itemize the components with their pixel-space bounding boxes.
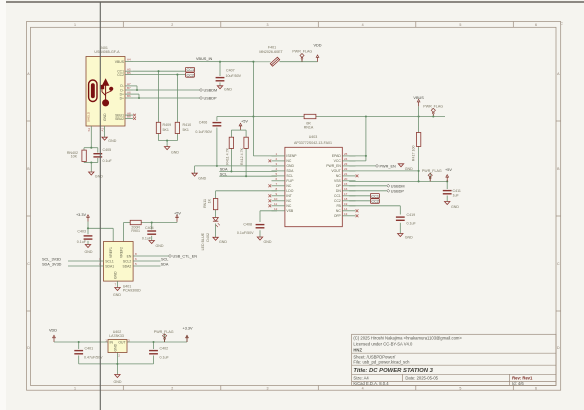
svg-text:A1: A1 [100,127,104,131]
svg-text:1uF: 1uF [453,194,460,198]
svg-text:D: D [557,346,560,350]
svg-text:B8: B8 [127,115,131,119]
svg-text:D402: D402 [206,233,210,242]
svg-text:C: C [27,262,30,266]
svg-text:USBDP: USBDP [204,97,218,101]
svg-text:GND: GND [224,88,232,92]
svg-text:DN: DN [336,189,341,193]
svg-text:B5: B5 [127,71,131,75]
svg-text:19: 19 [344,202,348,206]
svg-text:GND: GND [405,236,413,240]
svg-text:VBUS_IN: VBUS_IN [196,57,213,61]
svg-text:NC: NC [336,174,341,178]
svg-text:15: 15 [344,182,348,186]
svg-text:CC2: CC2 [187,73,195,77]
svg-text:GND: GND [264,240,272,244]
svg-text:1: 1 [74,386,76,390]
svg-text:CC1: CC1 [334,194,341,198]
svg-text:LED BLUE: LED BLUE [201,232,205,250]
svg-text:C401: C401 [85,347,94,351]
svg-text:U403: U403 [309,135,318,139]
svg-text:CC1: CC1 [371,194,379,198]
svg-text:C406: C406 [199,120,208,124]
svg-text:C408: C408 [243,222,252,226]
svg-text:2: 2 [171,23,173,27]
svg-text:GND: GND [114,271,118,279]
svg-text:14: 14 [344,207,348,211]
svg-text:SDA: SDA [220,168,228,172]
svg-text:+5V: +5V [241,120,248,124]
svg-text:+5V: +5V [445,168,452,172]
svg-text:12: 12 [274,207,278,211]
svg-text:VBUS: VBUS [413,96,424,100]
svg-text:LDO: LDO [286,189,293,193]
svg-text:10: 10 [274,197,278,201]
svg-text:File: usb_pd_power.kicad_sch: File: usb_pd_power.kicad_sch [353,360,410,365]
svg-text:OUT: OUT [118,341,125,345]
svg-text:0.1uF: 0.1uF [160,356,170,360]
svg-text:CC1: CC1 [187,68,195,72]
svg-text:C407: C407 [226,69,235,73]
svg-text:S1: S1 [87,127,91,131]
svg-text:Size: A4: Size: A4 [353,376,369,381]
svg-text:24: 24 [344,157,348,161]
svg-text:USB4085-GF-A: USB4085-GF-A [94,50,120,54]
svg-text:3: 3 [267,23,269,27]
svg-text:A4: A4 [127,58,131,62]
svg-text:17: 17 [344,192,348,196]
svg-text:GND: GND [114,343,118,351]
svg-text:0.1uF: 0.1uF [142,237,152,241]
svg-text:C405: C405 [103,148,112,152]
svg-text:D+: D+ [120,96,124,100]
svg-text:SCL2: SCL2 [123,259,132,263]
svg-text:5: 5 [459,386,461,390]
svg-text:+3.3V: +3.3V [183,327,193,331]
svg-text:ISENP: ISENP [286,154,297,158]
svg-text:SHELD: SHELD [87,111,91,122]
svg-text:SCL: SCL [161,257,168,261]
svg-text:EN: EN [127,254,132,258]
svg-text:VREF1: VREF1 [109,247,113,258]
svg-text:SDA1: SDA1 [105,264,114,268]
svg-text:FB: FB [336,204,341,208]
svg-text:PWR_FLAG: PWR_FLAG [292,50,312,54]
svg-text:CC2: CC2 [117,73,124,77]
svg-text:GND: GND [286,164,294,168]
svg-text:R409: R409 [163,123,172,127]
svg-text:GND: GND [108,139,116,143]
svg-text:VSS: VSS [334,179,342,183]
svg-text:0.1uF: 0.1uF [77,240,87,244]
svg-text:Licensed under CC-BY-SA V4.0: Licensed under CC-BY-SA V4.0 [353,341,413,346]
svg-text:GND: GND [113,293,121,297]
svg-text:AP33772S042-13-FA01: AP33772S042-13-FA01 [294,141,332,145]
svg-text:EPAD: EPAD [332,154,342,158]
svg-text:SDA_3V3D: SDA_3V3D [42,262,62,266]
svg-text:NC: NC [286,204,291,208]
svg-text:22: 22 [344,167,348,171]
svg-text:3: 3 [267,386,269,390]
svg-text:NC: NC [336,209,341,213]
svg-text:USBDM: USBDM [391,184,405,188]
svg-text:RN11: RN11 [203,199,207,208]
svg-text:R901: R901 [131,229,140,233]
svg-text:VSB: VSB [286,209,294,213]
svg-text:D: D [27,346,30,350]
svg-text:VREF2: VREF2 [119,247,123,258]
svg-text:GND: GND [219,240,227,244]
svg-text:VCC: VCC [334,159,342,163]
svg-text:C404: C404 [145,226,154,230]
svg-text:SCL: SCL [286,174,293,178]
svg-text:2: 2 [171,386,173,390]
svg-text:6: 6 [535,23,537,27]
svg-text:NC: NC [286,199,291,203]
svg-text:0.1uF: 0.1uF [407,221,417,225]
svg-text:NC: NC [286,159,291,163]
svg-text:+3.3V: +3.3V [76,213,86,217]
svg-text:10K: 10K [71,155,78,159]
svg-text:CC2: CC2 [334,199,341,203]
svg-text:C411: C411 [453,189,461,193]
svg-text:GND: GND [103,113,107,121]
svg-text:PWR_FLAG: PWR_FLAG [154,330,174,334]
svg-text:1K: 1K [208,198,212,203]
svg-text:5K1: 5K1 [183,128,189,132]
svg-text:DP: DP [336,184,341,188]
svg-text:GND: GND [95,175,103,179]
svg-text:SDA2: SDA2 [122,264,131,268]
svg-text:Id: 4/6: Id: 4/6 [512,381,524,386]
svg-text:Title: DC POWER STATION 3: Title: DC POWER STATION 3 [353,368,433,374]
svg-text:SDA: SDA [161,262,169,266]
svg-text:USB_CTL_EN: USB_CTL_EN [173,254,198,258]
svg-text:GND: GND [114,380,122,384]
svg-text:VBUS: VBUS [115,60,125,64]
svg-text:C419: C419 [407,213,416,217]
svg-text:20: 20 [344,177,348,181]
svg-text:HNZ: HNZ [353,348,362,353]
svg-text:LA78K33: LA78K33 [109,334,124,338]
svg-text:INT: INT [286,194,291,198]
svg-text:VDD: VDD [49,328,57,332]
svg-text:SCL_3V3D: SCL_3V3D [42,257,61,261]
svg-text:C402: C402 [160,347,169,351]
svg-text:0.1uF/50V: 0.1uF/50V [195,130,212,134]
svg-text:0.1uF: 0.1uF [103,159,113,163]
svg-text:C403: C403 [77,229,86,233]
svg-text:PCA9306D: PCA9306D [123,288,141,292]
svg-text:F401: F401 [268,46,276,50]
svg-text:PWR_FLAG: PWR_FLAG [422,169,442,173]
svg-text:6: 6 [535,386,537,390]
svg-text:16: 16 [344,187,348,191]
svg-text:VOUT: VOUT [331,169,340,173]
svg-text:21: 21 [344,172,348,176]
svg-text:VDD: VDD [313,43,321,47]
svg-text:13: 13 [344,212,348,216]
svg-text:GND: GND [171,151,179,155]
svg-text:10uF/50V: 10uF/50V [226,74,242,78]
svg-text:USBDP: USBDP [391,189,405,193]
svg-text:4: 4 [362,23,364,27]
svg-text:R410: R410 [183,123,192,127]
svg-text:GND: GND [198,176,206,180]
svg-text:USBDM: USBDM [204,89,218,93]
svg-text:5K1: 5K1 [163,128,169,132]
svg-text:23: 23 [344,162,348,166]
svg-text:18: 18 [344,197,348,201]
svg-text:11: 11 [274,202,277,206]
svg-text:CC2: CC2 [371,200,379,204]
svg-text:GND: GND [451,205,459,209]
svg-text:NC: NC [286,184,291,188]
svg-text:OFP: OFP [334,214,342,218]
svg-text:GND: GND [85,250,93,254]
svg-text:PWR_FLAG: PWR_FLAG [423,105,443,109]
svg-text:Date: 2025-05-05: Date: 2025-05-05 [405,376,438,381]
svg-text:1: 1 [74,23,76,27]
svg-text:0.1uF/50V: 0.1uF/50V [237,231,254,235]
svg-text:FLIP: FLIP [286,179,294,183]
svg-text:R412 4.7K: R412 4.7K [240,147,244,165]
svg-text:R411 4.7K: R411 4.7K [226,147,230,164]
svg-text:KiCad E.D.A. 8.0.4: KiCad E.D.A. 8.0.4 [353,381,389,386]
svg-text:Rev: Rev1: Rev: Rev1 [512,376,533,381]
svg-text:MN2026-60ET: MN2026-60ET [259,50,283,54]
svg-text:GND: GND [405,167,413,171]
svg-text:GND: GND [156,244,164,248]
svg-text:SCL1: SCL1 [105,259,114,263]
svg-text:SCL: SCL [220,173,227,177]
svg-text:Sheet: /USBPDPower/: Sheet: /USBPDPower/ [353,354,396,359]
svg-text:PWR_EN: PWR_EN [380,164,397,168]
svg-text:B6: B6 [127,94,131,98]
svg-text:SDA: SDA [286,169,294,173]
svg-text:5: 5 [459,23,461,27]
svg-text:SBU2: SBU2 [115,117,124,121]
svg-text:4: 4 [362,386,364,390]
svg-text:RN1A: RN1A [304,125,314,129]
svg-text:C: C [560,22,563,26]
svg-text:25: 25 [344,152,348,156]
svg-text:(C) 2025 Hiroshi Nakajima <hna: (C) 2025 Hiroshi Nakajima <hnakamura1103… [353,335,462,340]
svg-text:R417 100: R417 100 [412,146,416,162]
svg-text:C: C [557,262,560,266]
svg-text:PWR_EN: PWR_EN [326,164,341,168]
svg-text:+5V: +5V [174,212,181,216]
